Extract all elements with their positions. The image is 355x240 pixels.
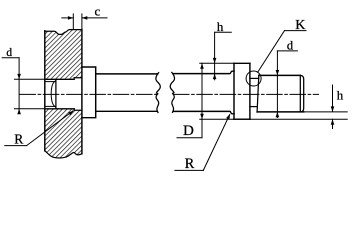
svg-text:d: d [287,38,294,52]
svg-text:D: D [183,123,194,139]
svg-text:c: c [95,3,101,18]
svg-text:h: h [337,88,344,103]
svg-text:K: K [295,18,305,33]
svg-text:R: R [185,156,195,172]
svg-text:d: d [6,47,12,59]
svg-text:h: h [217,19,224,34]
svg-text:R: R [14,131,23,146]
